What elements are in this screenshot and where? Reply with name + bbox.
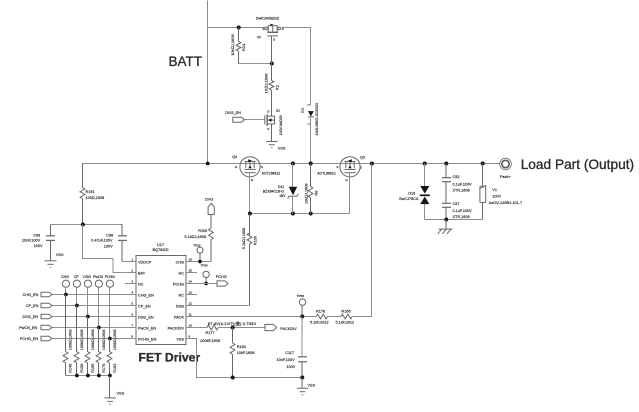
svg-text:R166: R166 bbox=[342, 309, 351, 313]
svg-text:VSS: VSS bbox=[278, 146, 286, 150]
capacitor C117 bbox=[298, 357, 307, 378]
junction Q1 gate node bbox=[270, 62, 274, 66]
wire PACK pin11 to TP58 node bbox=[186, 316, 316, 318]
svg-text:1N4148WS-SOD323: 1N4148WS-SOD323 bbox=[315, 103, 319, 136]
svg-text:0.47uF,100V: 0.47uF,100V bbox=[91, 239, 113, 243]
svg-text:0.1uF,100V: 0.1uF,100V bbox=[453, 209, 473, 213]
test point CP column bbox=[73, 275, 80, 308]
wire output bottom rail bbox=[425, 219, 483, 221]
pin names left column bbox=[138, 261, 157, 342]
svg-text:S: S bbox=[267, 127, 269, 131]
junction D11 bottom bbox=[291, 212, 295, 216]
svg-text:SwCJ78CA: SwCJ78CA bbox=[399, 197, 419, 201]
svg-text:5.1kF,2012: 5.1kF,2012 bbox=[310, 321, 329, 325]
svg-text:XTR,1608: XTR,1608 bbox=[453, 189, 470, 193]
svg-text:DSG_EN: DSG_EN bbox=[225, 111, 241, 115]
svg-text:5.1kΩJ,1608: 5.1kΩJ,1608 bbox=[185, 235, 207, 239]
svg-text:1KΩJ,1608: 1KΩJ,1608 bbox=[264, 73, 269, 94]
svg-text:DSG_EN: DSG_EN bbox=[23, 315, 39, 319]
svg-text:0.1uF,100V: 0.1uF,100V bbox=[453, 183, 473, 187]
svg-text:R8: R8 bbox=[314, 191, 318, 196]
svg-text:PACKDIV: PACKDIV bbox=[280, 327, 297, 331]
svg-text:200kF,1608: 200kF,1608 bbox=[200, 339, 220, 343]
junction R24 top bbox=[237, 26, 241, 30]
op-amp U17 BQ76200 IC box bbox=[136, 256, 186, 345]
svg-text:15: 15 bbox=[189, 268, 193, 272]
junction C117 bottom / ground bbox=[300, 376, 304, 380]
svg-text:R184: R184 bbox=[237, 345, 246, 349]
svg-text:13: 13 bbox=[189, 290, 193, 294]
wire PCHG pin14 bbox=[186, 283, 217, 285]
svg-text:VSS: VSS bbox=[117, 392, 125, 396]
resistor R158 bbox=[74, 306, 79, 376]
wire pulldown bottom rail bbox=[66, 375, 111, 377]
pin numbers left bbox=[131, 257, 133, 338]
transistor Q1 bbox=[256, 16, 285, 63]
resistor R8 bbox=[308, 164, 313, 214]
svg-text:BZX84C18-G: BZX84C18-G bbox=[263, 189, 284, 193]
svg-text:CHG_EN: CHG_EN bbox=[23, 293, 39, 297]
varistor V1 bbox=[480, 164, 487, 220]
svg-text:Load Part (Output): Load Part (Output) bbox=[521, 157, 634, 172]
diode D31 bbox=[301, 103, 319, 136]
ground VSS lower left bbox=[105, 376, 116, 405]
svg-text:C117: C117 bbox=[285, 351, 294, 355]
svg-text:R176: R176 bbox=[102, 364, 106, 373]
svg-text:PwCN_EN: PwCN_EN bbox=[138, 327, 156, 331]
svg-text:PCHG: PCHG bbox=[173, 283, 184, 287]
svg-text:PwCN: PwCN bbox=[93, 275, 103, 279]
resistor R100 bbox=[209, 215, 214, 262]
svg-text:DSG_EN: DSG_EN bbox=[138, 316, 154, 320]
wire PACKDIV pin10 to R177 bbox=[186, 327, 207, 329]
svg-text:5.1kF,2012: 5.1kF,2012 bbox=[336, 321, 355, 325]
TVS diode D13 bbox=[399, 164, 430, 220]
svg-text:DSG: DSG bbox=[176, 305, 184, 309]
junction R158 bottom bbox=[75, 374, 79, 378]
svg-text:10kΩJ,1608: 10kΩJ,1608 bbox=[305, 184, 309, 204]
svg-text:100kΩ,1608: 100kΩ,1608 bbox=[113, 330, 117, 351]
net flag PCHG (right) bbox=[216, 275, 228, 286]
svg-text:PCHG: PCHG bbox=[105, 275, 115, 279]
ground VSS under Q2 bbox=[266, 142, 277, 148]
svg-text:Q3: Q3 bbox=[360, 156, 365, 160]
wire CHG pin16 bbox=[186, 261, 211, 263]
pin 15 NC stub bbox=[186, 272, 197, 274]
svg-text:C93: C93 bbox=[33, 234, 40, 238]
svg-text:CHG: CHG bbox=[61, 275, 69, 279]
svg-text:CHG: CHG bbox=[176, 261, 184, 265]
net flag CP_EN bbox=[26, 303, 136, 308]
svg-text:FET Driver: FET Driver bbox=[139, 350, 201, 364]
svg-text:BATT: BATT bbox=[169, 54, 203, 69]
wire node rail C93-C98 bbox=[51, 224, 123, 226]
junction V1 top bbox=[481, 162, 485, 166]
resistor R184 bbox=[230, 328, 235, 378]
svg-text:R109: R109 bbox=[253, 236, 257, 245]
svg-text:R177: R177 bbox=[206, 331, 215, 335]
resistor R151 bbox=[80, 164, 85, 225]
svg-text:PCHG: PCHG bbox=[216, 275, 227, 279]
svg-text:R148: R148 bbox=[69, 364, 73, 373]
resistor R109 bbox=[247, 214, 252, 306]
svg-text:S: S bbox=[262, 27, 264, 31]
svg-text:DSG: DSG bbox=[83, 275, 91, 279]
svg-text:10nF,100V: 10nF,100V bbox=[22, 239, 41, 243]
net flag DSG_EN (to Q2 gate) bbox=[225, 111, 264, 122]
svg-text:R1: R1 bbox=[275, 84, 280, 90]
wire C98 to pin1 VDDCP bbox=[122, 261, 136, 263]
svg-text:100V: 100V bbox=[34, 244, 43, 248]
svg-text:100V: 100V bbox=[286, 365, 295, 369]
svg-text:PCHG_EN: PCHG_EN bbox=[138, 338, 157, 342]
capacitor C52 bbox=[442, 164, 451, 204]
capacitor C98 bbox=[118, 225, 127, 262]
wire top rail left segment bbox=[208, 27, 265, 29]
svg-text:CP: CP bbox=[74, 275, 80, 279]
svg-text:AeOV-1206H-101-7: AeOV-1206H-101-7 bbox=[489, 201, 522, 205]
wire PACK drop vertical bbox=[371, 164, 373, 317]
chassis ground bbox=[438, 220, 453, 234]
svg-text:87.4V(4.1V/7)(查) 2.733V: 87.4V(4.1V/7)(查) 2.733V bbox=[208, 321, 257, 326]
test point CHG column bbox=[61, 275, 69, 297]
svg-text:PCHG_EN: PCHG_EN bbox=[20, 337, 39, 341]
connector Pack+ output bbox=[500, 158, 512, 170]
svg-text:XTR,1608: XTR,1608 bbox=[453, 215, 470, 219]
wire between R178 R166 bbox=[328, 316, 342, 318]
svg-text:100kΩ,1608: 100kΩ,1608 bbox=[80, 330, 84, 351]
pin 13 NC stub bbox=[186, 294, 197, 296]
svg-text:VDDCP: VDDCP bbox=[138, 261, 152, 265]
resistor R178 bbox=[316, 314, 327, 319]
svg-text:VSS: VSS bbox=[176, 338, 184, 342]
wire main rail bbox=[83, 163, 500, 165]
svg-text:PwCN_EN: PwCN_EN bbox=[19, 326, 37, 330]
svg-text:R151: R151 bbox=[86, 190, 95, 194]
svg-text:100V: 100V bbox=[104, 245, 113, 249]
svg-text:DwP1045aD2S: DwP1045aD2S bbox=[256, 16, 280, 20]
net flag PACKDIV (right) bbox=[265, 324, 297, 330]
net flag CHG (up) bbox=[205, 197, 215, 214]
junction chassis ground bbox=[444, 218, 448, 222]
svg-text:TP29: TP29 bbox=[193, 244, 201, 248]
junction TP58/C117 on PACK bbox=[300, 315, 304, 319]
svg-text:16: 16 bbox=[189, 257, 193, 261]
junction PACK drop bbox=[370, 162, 374, 166]
resistor R166 bbox=[341, 314, 352, 319]
svg-text:100kΩ,1608: 100kΩ,1608 bbox=[102, 330, 106, 351]
wire VSS pin9 down and rail bbox=[186, 339, 302, 378]
svg-text:V1: V1 bbox=[492, 188, 497, 192]
wire Q1 drain drop bbox=[310, 28, 312, 106]
test point PCHG column bbox=[105, 275, 115, 341]
svg-text:Q4: Q4 bbox=[232, 155, 237, 159]
test point TP29 bbox=[197, 247, 203, 261]
svg-text:AOTL66912: AOTL66912 bbox=[317, 171, 335, 175]
svg-text:NC: NC bbox=[179, 272, 185, 276]
svg-text:10kF,1608: 10kF,1608 bbox=[237, 351, 255, 355]
transistor Q3 bbox=[317, 156, 365, 183]
svg-text:BAT: BAT bbox=[138, 272, 146, 276]
svg-text:10nF,100V: 10nF,100V bbox=[277, 358, 296, 362]
svg-text:PACKDIV: PACKDIV bbox=[168, 327, 185, 331]
junction TP29 bbox=[198, 260, 202, 264]
pin names right column bbox=[168, 261, 185, 342]
wire Q4 gate lead bbox=[249, 173, 251, 214]
wire DSG pin12 bbox=[186, 305, 250, 307]
wire gate rail bbox=[250, 213, 350, 215]
transistor Q4 bbox=[232, 155, 280, 182]
svg-text:Q2: Q2 bbox=[276, 108, 280, 112]
junction D11 top bbox=[291, 162, 295, 166]
svg-text:18V: 18V bbox=[279, 194, 286, 198]
svg-text:CHG_EN: CHG_EN bbox=[138, 294, 154, 298]
svg-text:100kΩ,1608: 100kΩ,1608 bbox=[69, 330, 73, 351]
pin numbers right bbox=[189, 257, 193, 338]
net flag PwCN_EN bbox=[19, 325, 136, 330]
junction D13 top bbox=[423, 162, 427, 166]
svg-text:C57: C57 bbox=[453, 202, 460, 206]
wire R177 to PACKDIV flag bbox=[218, 327, 265, 329]
test point DSG column bbox=[83, 275, 91, 319]
junction R176 bottom bbox=[97, 374, 101, 378]
wire C117 drop bbox=[301, 317, 303, 357]
junction R184 top bbox=[231, 326, 235, 330]
svg-text:100V-NvD28: 100V-NvD28 bbox=[279, 115, 283, 135]
svg-text:D13: D13 bbox=[408, 191, 415, 195]
svg-text:12: 12 bbox=[189, 301, 193, 305]
junction TP50 bbox=[204, 282, 208, 286]
wire D31 to main rail bbox=[310, 117, 312, 164]
junction R8 top bbox=[309, 162, 313, 166]
resistor R165 bbox=[85, 317, 90, 376]
svg-text:14: 14 bbox=[189, 279, 193, 283]
capacitor C57 bbox=[442, 203, 451, 219]
transistor Q2 bbox=[265, 108, 283, 141]
test point PwCN column bbox=[93, 275, 103, 330]
svg-text:10: 10 bbox=[189, 323, 193, 327]
svg-text:5.1kΩJ,1608: 5.1kΩJ,1608 bbox=[242, 228, 246, 250]
resistor R176 bbox=[96, 328, 101, 376]
pin 3 NC stub bbox=[125, 283, 136, 285]
resistor R177 bbox=[207, 325, 218, 330]
svg-text:S: S bbox=[336, 165, 338, 169]
svg-text:11: 11 bbox=[189, 312, 192, 316]
wire R166 to PACK drop bbox=[352, 316, 372, 318]
svg-text:VSS: VSS bbox=[308, 384, 316, 388]
svg-text:10kΩJ,1608: 10kΩJ,1608 bbox=[230, 33, 235, 55]
svg-text:R24: R24 bbox=[241, 43, 246, 51]
test point TP58 bbox=[299, 299, 305, 317]
svg-text:S: S bbox=[261, 165, 263, 169]
junction gate rail left (R109) bbox=[248, 212, 252, 216]
net flag CHG_EN bbox=[23, 292, 137, 297]
svg-text:CP_EN: CP_EN bbox=[26, 304, 39, 308]
svg-text:NC: NC bbox=[138, 283, 144, 287]
wire BAT net to pin2 bbox=[83, 225, 137, 273]
svg-text:TP50: TP50 bbox=[201, 264, 209, 268]
svg-text:CHG: CHG bbox=[205, 197, 213, 201]
junction R183 bottom bbox=[108, 374, 112, 378]
svg-text:D31: D31 bbox=[301, 107, 305, 113]
svg-text:U17: U17 bbox=[157, 243, 164, 247]
svg-text:C52: C52 bbox=[453, 175, 460, 179]
svg-text:R100: R100 bbox=[198, 229, 207, 233]
test point TP50 bbox=[203, 271, 209, 283]
ground VSS under C93 bbox=[45, 261, 57, 268]
svg-text:R158: R158 bbox=[80, 364, 84, 373]
svg-text:BQ76200: BQ76200 bbox=[153, 248, 169, 252]
svg-text:AOTL66912: AOTL66912 bbox=[262, 171, 280, 175]
svg-text:NC: NC bbox=[179, 294, 185, 298]
ground VSS bottom middle bbox=[297, 378, 308, 395]
svg-text:100V: 100V bbox=[492, 194, 501, 198]
svg-text:100Ω,1608: 100Ω,1608 bbox=[86, 196, 105, 200]
resistor R1 bbox=[269, 64, 274, 114]
resistor R148 bbox=[63, 295, 68, 376]
svg-text:R178: R178 bbox=[316, 309, 325, 313]
svg-text:R165: R165 bbox=[91, 364, 95, 373]
wire BATT bus vertical bbox=[207, 1, 209, 164]
zener diode D11 bbox=[263, 164, 299, 214]
resistor R183 bbox=[107, 339, 112, 376]
junction R8 bottom bbox=[309, 212, 313, 216]
net flag DSG_EN input bbox=[23, 314, 137, 319]
wire R24 bottom to Q1 gate bbox=[239, 63, 272, 65]
capacitor C93 bbox=[46, 225, 55, 261]
junction C52 top bbox=[444, 162, 448, 166]
wire top rail right segment bbox=[282, 27, 311, 29]
svg-text:C98: C98 bbox=[106, 233, 113, 237]
wire Q3 gate lead bbox=[349, 173, 351, 214]
svg-text:CP_EN: CP_EN bbox=[138, 305, 151, 309]
svg-text:R183: R183 bbox=[113, 364, 117, 373]
net flag PCHG_EN bbox=[20, 336, 136, 341]
junction R165 bottom bbox=[86, 374, 90, 378]
svg-text:D11: D11 bbox=[278, 185, 284, 189]
junction R184 bottom bbox=[231, 376, 235, 380]
svg-text:VSS: VSS bbox=[56, 253, 64, 257]
svg-text:100kΩ,1608: 100kΩ,1608 bbox=[91, 330, 95, 351]
svg-text:Pack+: Pack+ bbox=[500, 175, 511, 179]
resistor R24 bbox=[236, 28, 241, 64]
junction node bbox=[81, 223, 85, 227]
junction BATT bus on rail bbox=[206, 162, 210, 166]
svg-text:TP58: TP58 bbox=[297, 294, 305, 298]
svg-text:Q1: Q1 bbox=[257, 35, 261, 39]
svg-text:PACK: PACK bbox=[174, 316, 185, 320]
